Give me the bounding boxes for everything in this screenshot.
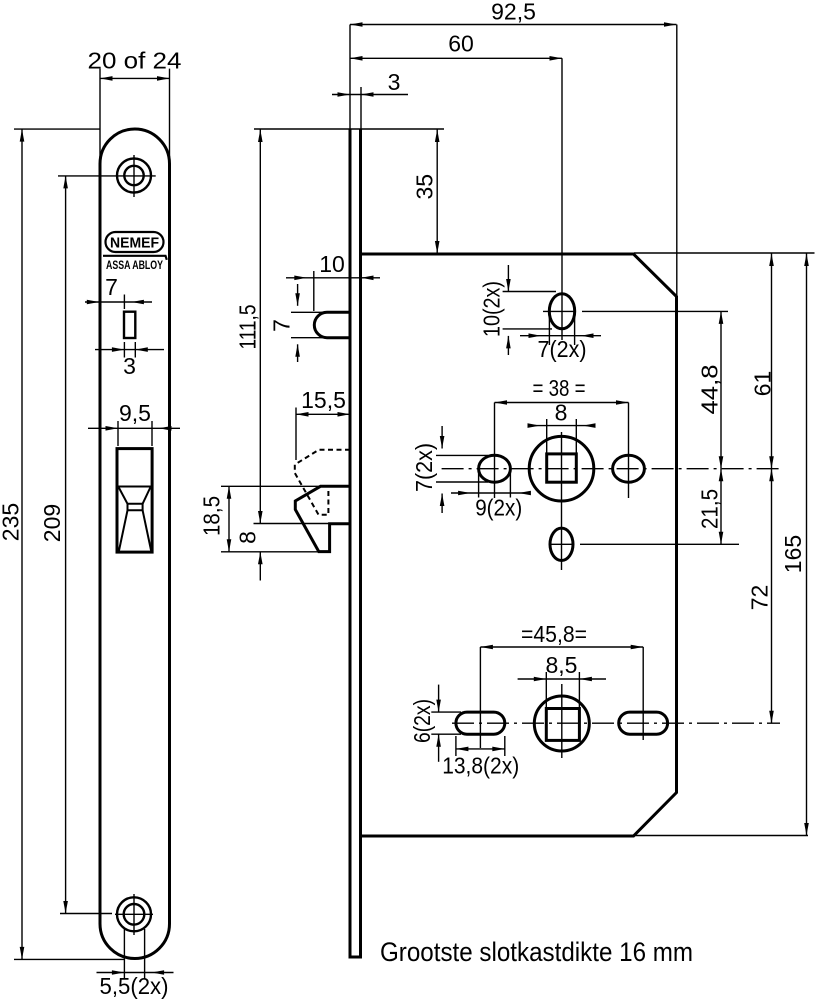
svg-text:9,5: 9,5 xyxy=(119,400,151,426)
svg-text:7: 7 xyxy=(269,319,295,332)
svg-text:10(2x): 10(2x) xyxy=(479,281,505,337)
svg-text:235: 235 xyxy=(0,503,24,541)
svg-text:7(2x): 7(2x) xyxy=(411,443,437,492)
svg-text:72: 72 xyxy=(747,585,773,611)
svg-text:15,5: 15,5 xyxy=(301,387,346,413)
svg-text:ASSA ABLOY: ASSA ABLOY xyxy=(106,258,163,272)
svg-text:111,5: 111,5 xyxy=(235,305,261,350)
svg-text:= 38 =: = 38 = xyxy=(533,375,586,401)
svg-text:8: 8 xyxy=(555,400,568,426)
svg-text:35: 35 xyxy=(412,174,438,200)
svg-text:10: 10 xyxy=(319,251,345,277)
svg-text:20 of 24: 20 of 24 xyxy=(88,48,182,74)
svg-text:61: 61 xyxy=(750,371,776,397)
svg-text:5,5(2x): 5,5(2x) xyxy=(100,973,169,999)
svg-text:9(2x): 9(2x) xyxy=(475,495,522,521)
svg-text:21,5: 21,5 xyxy=(697,489,723,529)
svg-text:92,5: 92,5 xyxy=(491,0,536,25)
svg-text:13,8(2x): 13,8(2x) xyxy=(442,753,519,779)
svg-text:165: 165 xyxy=(780,535,806,573)
svg-text:3: 3 xyxy=(388,69,401,95)
svg-text:8,5: 8,5 xyxy=(546,652,578,678)
svg-text:Grootste slotkastdikte 16 mm: Grootste slotkastdikte 16 mm xyxy=(380,937,693,967)
svg-text:209: 209 xyxy=(39,504,65,542)
svg-text:44,8: 44,8 xyxy=(697,365,723,415)
svg-text:18,5: 18,5 xyxy=(199,496,225,536)
svg-text:60: 60 xyxy=(448,31,474,57)
svg-text:=45,8=: =45,8= xyxy=(521,621,587,647)
svg-text:3: 3 xyxy=(123,353,136,379)
svg-text:7(2x): 7(2x) xyxy=(538,336,587,362)
svg-text:7: 7 xyxy=(105,274,118,300)
svg-text:8: 8 xyxy=(235,531,261,544)
svg-text:6(2x): 6(2x) xyxy=(409,699,435,743)
svg-text:NEMEF: NEMEF xyxy=(110,236,159,252)
